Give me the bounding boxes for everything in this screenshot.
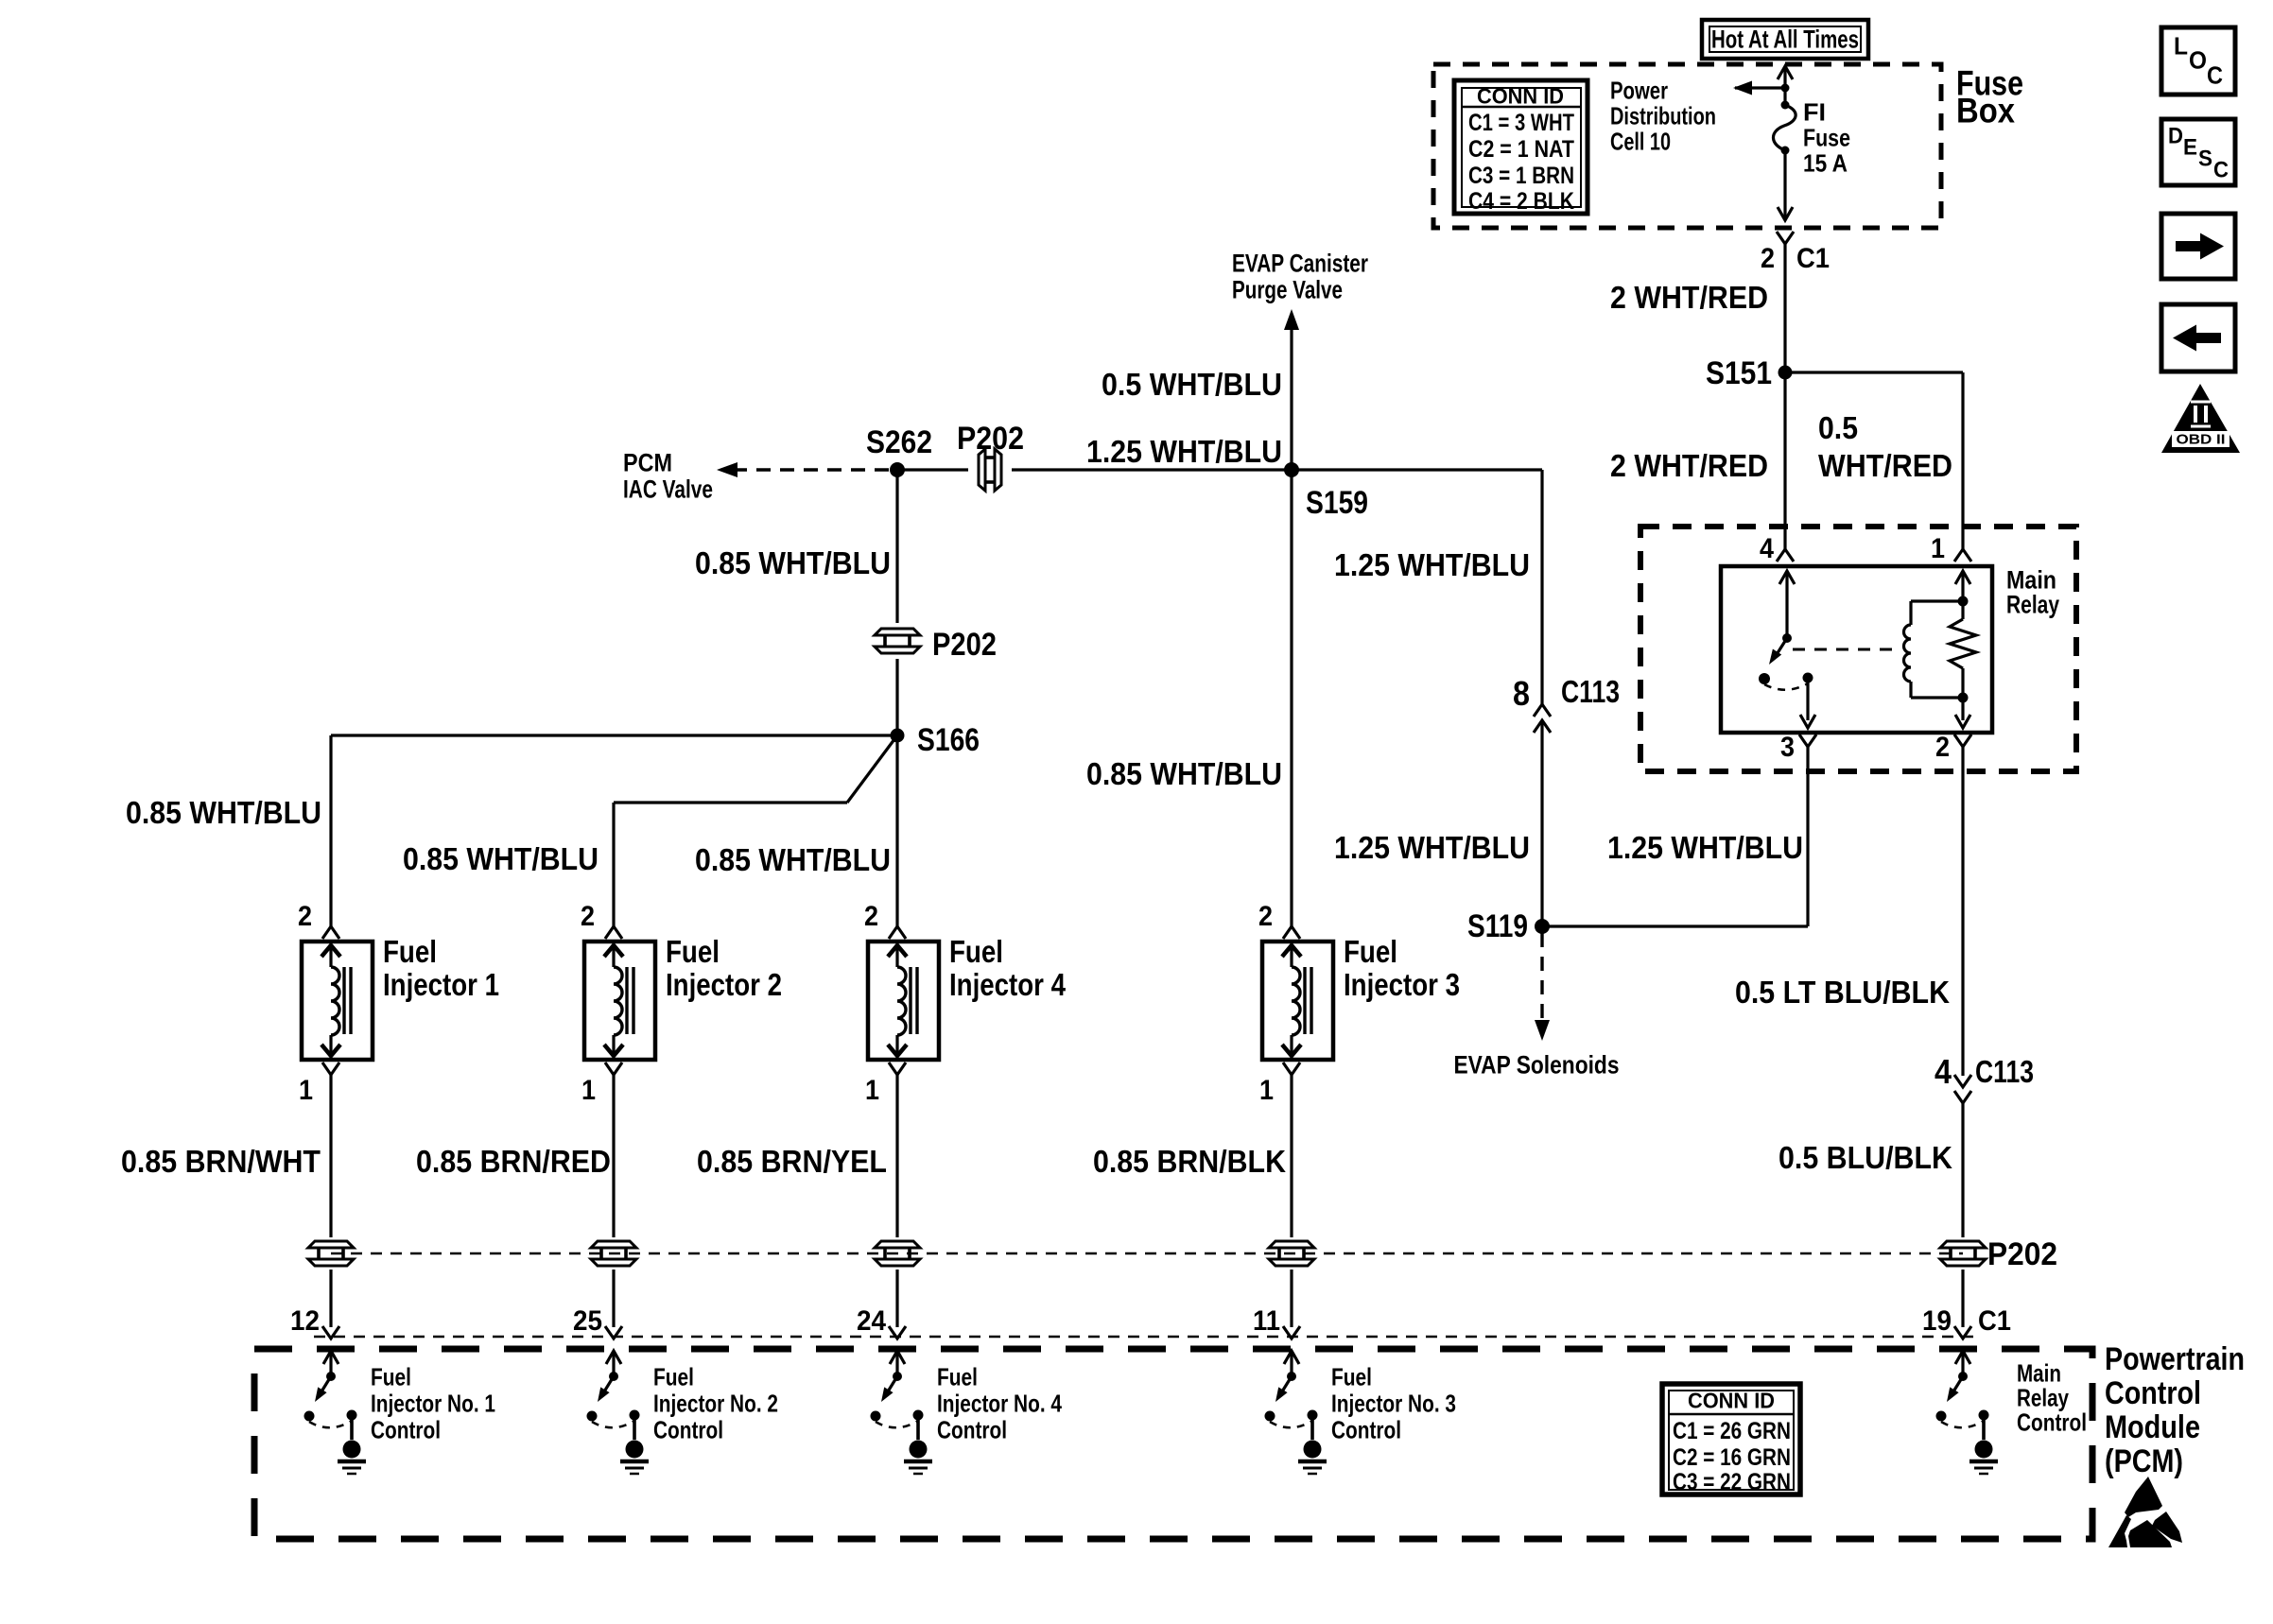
svg-text:0.85 WHT/BLU: 0.85 WHT/BLU (695, 545, 891, 580)
svg-text:C1: C1 (1796, 243, 1830, 274)
svg-text:D: D (2168, 124, 2183, 149)
wire injector 2 to PCM (612, 1075, 615, 1237)
svg-text:Injector No. 2: Injector No. 2 (653, 1389, 778, 1417)
svg-text:1: 1 (1259, 1075, 1274, 1106)
svg-text:4: 4 (1760, 533, 1774, 564)
svg-text:15 A: 15 A (1803, 148, 1848, 177)
svg-text:Power: Power (1610, 76, 1668, 104)
connector P202 pass-through at x=649 (591, 1241, 636, 1248)
svg-text:Fuel: Fuel (666, 934, 720, 969)
relay pin 2 (1954, 734, 1971, 747)
wire: bus corner down to C113 pin 8 (1540, 470, 1543, 704)
svg-text:0.5 LT BLU/BLK: 0.5 LT BLU/BLK (1735, 975, 1950, 1010)
svg-text:Control: Control (937, 1415, 1007, 1443)
wire S159 to injector 3 (1290, 470, 1293, 926)
connector C113 pin 8 (1534, 704, 1551, 717)
wire: battery feed up to Hot At All Times (1783, 67, 1786, 88)
ESD sensitivity symbol (2108, 1477, 2182, 1547)
icon box LOC (2161, 27, 2235, 95)
svg-text:12: 12 (290, 1305, 320, 1337)
svg-text:2: 2 (581, 901, 595, 932)
svg-text:Control: Control (1331, 1415, 1401, 1443)
svg-text:C1: C1 (1978, 1305, 2011, 1337)
svg-text:C: C (2207, 60, 2223, 89)
PCM driver: Fuel Injector No. 4 Control (890, 1351, 905, 1364)
svg-text:EVAP Canister: EVAP Canister (1232, 250, 1368, 278)
svg-text:Fuel: Fuel (383, 934, 437, 969)
svg-text:L: L (2174, 31, 2188, 60)
fuel injector 2 pin 2 (605, 926, 622, 939)
svg-text:19: 19 (1922, 1305, 1952, 1337)
PCM connector row (thin dashed) (314, 1336, 1978, 1339)
svg-text:Injector No. 3: Injector No. 3 (1331, 1389, 1456, 1417)
svg-text:S: S (2198, 147, 2212, 172)
svg-text:IAC Valve: IAC Valve (623, 475, 713, 504)
Powertrain Control Module box (dashed) (254, 1349, 2092, 1539)
PCM driver: Fuel Injector No. 3 Control (1284, 1351, 1299, 1364)
svg-text:C1 = 3 WHT: C1 = 3 WHT (1468, 110, 1574, 136)
svg-text:S119: S119 (1467, 908, 1528, 944)
svg-text:S151: S151 (1706, 355, 1772, 391)
svg-text:Injector 4: Injector 4 (949, 967, 1067, 1002)
svg-text:C2 = 1 NAT: C2 = 1 NAT (1468, 136, 1574, 163)
svg-text:C1 = 26 GRN: C1 = 26 GRN (1673, 1418, 1791, 1444)
fuel injector 1 pin 2 (322, 926, 339, 939)
svg-text:Hot At All Times: Hot At All Times (1711, 26, 1859, 54)
fuel injector 3 pin 1 (1283, 1063, 1300, 1075)
svg-text:C3 = 22 GRN: C3 = 22 GRN (1673, 1469, 1791, 1495)
svg-text:0.5 BLU/BLK: 0.5 BLU/BLK (1778, 1140, 1952, 1175)
svg-text:Injector No. 4: Injector No. 4 (937, 1389, 1062, 1417)
svg-text:1.25 WHT/BLU: 1.25 WHT/BLU (1334, 547, 1530, 582)
PCM pin 25 (605, 1326, 622, 1339)
CONN ID table (fuse box) (1454, 80, 1588, 214)
relay switch (pins 4-3) (1779, 571, 1795, 584)
wire injector 1 to PCM (329, 1075, 332, 1237)
svg-text:CONN ID: CONN ID (1477, 83, 1564, 108)
connector P202 (second) (875, 629, 920, 635)
relay resistor (1950, 619, 1976, 668)
main relay dashed box (1640, 527, 2076, 771)
svg-text:Purge Valve: Purge Valve (1232, 276, 1343, 304)
wire relay pin 2 down (1961, 747, 1964, 1076)
fuel injector 2 (584, 942, 655, 1060)
svg-text:3: 3 (1780, 732, 1795, 763)
svg-text:Fuel: Fuel (653, 1362, 694, 1391)
node S262 (890, 462, 905, 477)
svg-text:2 WHT/RED: 2 WHT/RED (1610, 280, 1768, 315)
svg-text:2: 2 (1258, 901, 1273, 932)
svg-text:Control: Control (2017, 1408, 2087, 1436)
node S166 (891, 729, 905, 743)
svg-text:Fuel: Fuel (937, 1362, 978, 1391)
svg-text:Control: Control (653, 1415, 723, 1443)
wire injector 4 to PCM (895, 1075, 898, 1237)
node S151 (1778, 366, 1793, 380)
svg-text:1.25 WHT/BLU: 1.25 WHT/BLU (1086, 434, 1282, 469)
relay actuating link (dashed) (1793, 648, 1899, 651)
svg-text:EVAP Solenoids: EVAP Solenoids (1454, 1051, 1620, 1080)
svg-text:C113: C113 (1561, 674, 1620, 709)
svg-text:2: 2 (864, 901, 878, 932)
svg-text:Injector 3: Injector 3 (1344, 967, 1460, 1002)
svg-text:24: 24 (857, 1305, 886, 1337)
wire S166 to injector 1 (331, 734, 897, 736)
svg-text:25: 25 (573, 1305, 602, 1337)
svg-text:0.85 BRN/BLK: 0.85 BRN/BLK (1093, 1144, 1286, 1179)
relay coil (1911, 599, 1963, 602)
svg-text:S159: S159 (1306, 485, 1368, 521)
svg-text:0.5: 0.5 (1818, 410, 1858, 445)
svg-text:P202: P202 (932, 627, 997, 663)
svg-text:PCM: PCM (623, 449, 672, 477)
wire: branch to power distribution (left arrow) (1735, 86, 1785, 89)
svg-text:8: 8 (1513, 674, 1530, 713)
svg-text:Fuel: Fuel (949, 934, 1003, 969)
svg-text:0.85 BRN/YEL: 0.85 BRN/YEL (697, 1144, 887, 1179)
svg-text:Injector No. 1: Injector No. 1 (371, 1389, 495, 1417)
svg-text:Fuel: Fuel (371, 1362, 411, 1391)
fuse FI 15 A (1783, 88, 1786, 104)
svg-text:0.85 WHT/BLU: 0.85 WHT/BLU (403, 841, 599, 876)
svg-text:P202: P202 (957, 421, 1024, 457)
icon box right arrow (2161, 214, 2235, 279)
svg-text:Relay: Relay (2006, 591, 2059, 619)
svg-text:1: 1 (581, 1075, 596, 1106)
svg-text:Injector 1: Injector 1 (383, 967, 499, 1002)
svg-text:Injector 2: Injector 2 (666, 967, 782, 1002)
svg-text:0.85 WHT/BLU: 0.85 WHT/BLU (126, 795, 321, 830)
relay pin 3 (1799, 734, 1816, 747)
PCM pin 12 (322, 1326, 339, 1339)
svg-text:P202: P202 (1987, 1236, 2057, 1272)
wire injector 3 to PCM (1290, 1075, 1293, 1237)
PCM pin 19 (1954, 1326, 1971, 1339)
icon OBD II triangle (2161, 384, 2240, 453)
svg-text:11: 11 (1253, 1305, 1280, 1337)
PCM pin 24 (889, 1326, 906, 1339)
wire S151 to relay pin 1 (1785, 371, 1963, 373)
svg-text:1.25 WHT/BLU: 1.25 WHT/BLU (1607, 830, 1803, 865)
node S159 (1284, 462, 1299, 477)
svg-text:OBD II: OBD II (2177, 432, 2226, 448)
PCM driver: Fuel Injector No. 2 Control (606, 1351, 621, 1364)
svg-text:2: 2 (1761, 243, 1775, 274)
node S119 (1535, 919, 1550, 934)
relay pin 1 (1954, 549, 1971, 561)
svg-text:Distribution: Distribution (1610, 101, 1716, 130)
wire S262 down to S166 (895, 470, 898, 623)
connector P202 pass-through at x=1366 (1269, 1241, 1314, 1248)
svg-text:C113: C113 (1975, 1054, 2034, 1089)
wire S119 to relay pin 3 (1542, 924, 1808, 927)
svg-text:0.85 WHT/BLU: 0.85 WHT/BLU (695, 842, 891, 877)
svg-text:Control: Control (371, 1415, 441, 1443)
svg-text:Fuel: Fuel (1331, 1362, 1372, 1391)
svg-text:0.85 BRN/RED: 0.85 BRN/RED (416, 1144, 611, 1179)
svg-text:CONN ID: CONN ID (1688, 1388, 1775, 1412)
svg-text:S262: S262 (866, 424, 932, 460)
wire S166 to injector 4 (895, 735, 898, 926)
icon box left arrow (2161, 304, 2235, 371)
svg-text:0.5 WHT/BLU: 0.5 WHT/BLU (1102, 367, 1282, 402)
svg-text:C: C (2213, 158, 2229, 183)
relay pin 4 (1777, 549, 1794, 561)
svg-text:C3 = 1 BRN: C3 = 1 BRN (1468, 163, 1574, 189)
svg-text:C2 = 16 GRN: C2 = 16 GRN (1673, 1444, 1791, 1471)
svg-text:1: 1 (1931, 533, 1945, 564)
svg-text:1: 1 (865, 1075, 879, 1106)
node label "Hot At All Times" (1702, 20, 1868, 59)
fuse box (dashed) (1433, 64, 1941, 228)
CONN ID table (PCM) (1662, 1384, 1800, 1494)
svg-text:C4 = 2 BLK: C4 = 2 BLK (1468, 188, 1574, 215)
svg-text:O: O (2189, 45, 2207, 74)
fuel injector 1 pin 1 (322, 1063, 339, 1075)
svg-text:Module: Module (2105, 1409, 2200, 1445)
svg-text:Box: Box (1956, 91, 2015, 130)
wire S166 to injector 2 (diagonal) (847, 735, 897, 803)
fuel injector 3 pin 2 (1283, 926, 1300, 939)
svg-text:(PCM): (PCM) (2105, 1443, 2183, 1479)
connector P202 pass-through at x=350 (308, 1241, 354, 1248)
svg-text:2: 2 (1935, 732, 1950, 763)
wire: S119 dashed to EVAP solenoids (1540, 933, 1543, 1026)
connector P202 pass-through at x=949 (875, 1241, 920, 1248)
svg-text:4: 4 (1935, 1052, 1952, 1091)
svg-text:0.85 BRN/WHT: 0.85 BRN/WHT (121, 1144, 321, 1179)
svg-text:1: 1 (299, 1075, 313, 1106)
fuel injector 3 (1262, 942, 1333, 1060)
svg-text:S166: S166 (917, 722, 980, 758)
connector row P202 (dashed line) (331, 1253, 1963, 1255)
fuel injector 1 (302, 942, 373, 1060)
relay coil branch (pin 1 to pin 2) (1955, 571, 1970, 584)
svg-text:Fuse: Fuse (1803, 123, 1850, 151)
connector C1 pin 2 (fuse box output) (1777, 232, 1794, 244)
main bus wire S262 to S159 (897, 468, 968, 471)
fuel injector 4 (868, 942, 939, 1060)
svg-text:Fuel: Fuel (1344, 934, 1397, 969)
wire: S159 up to EVAP canister purge valve (1290, 326, 1293, 470)
main relay body (1721, 566, 1992, 733)
fuel injector 4 pin 2 (889, 926, 906, 939)
PCM driver: Main Relay Control (1955, 1351, 1970, 1364)
svg-text:WHT/RED: WHT/RED (1818, 448, 1952, 483)
svg-text:E: E (2183, 135, 2197, 161)
svg-text:2 WHT/RED: 2 WHT/RED (1610, 448, 1768, 483)
icon box DESC (2161, 119, 2235, 185)
svg-text:Control: Control (2105, 1375, 2201, 1411)
svg-text:2: 2 (298, 901, 312, 932)
connector P202 pass-through at x=2076 (1940, 1241, 1986, 1248)
fuel injector 4 pin 1 (889, 1063, 906, 1075)
PCM pin 11 (1283, 1326, 1300, 1339)
fuel injector 2 pin 1 (605, 1063, 622, 1075)
svg-text:FI: FI (1803, 97, 1826, 126)
svg-text:Powertrain: Powertrain (2105, 1341, 2245, 1377)
svg-text:0.85 WHT/BLU: 0.85 WHT/BLU (1086, 756, 1282, 791)
svg-text:1.25 WHT/BLU: 1.25 WHT/BLU (1334, 830, 1530, 865)
wire: IAC dashed branch with arrow (733, 468, 895, 471)
connector P202 (on bus) (979, 449, 985, 491)
connector C113 pin 4 (1954, 1075, 1971, 1087)
svg-text:Cell 10: Cell 10 (1610, 127, 1671, 155)
PCM driver: Fuel Injector No. 1 Control (323, 1351, 338, 1364)
wire S151 to relay pin 4 (1783, 372, 1786, 549)
